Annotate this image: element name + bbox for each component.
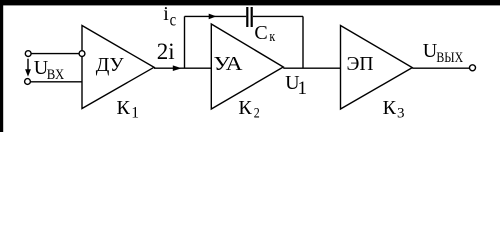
svg-text:К: К	[383, 97, 397, 119]
svg-text:к: к	[269, 29, 275, 45]
svg-text:К: К	[238, 97, 252, 119]
svg-text:1: 1	[131, 104, 139, 121]
svg-text:1: 1	[298, 78, 308, 99]
svg-text:3: 3	[397, 106, 405, 122]
svg-text:2: 2	[254, 105, 260, 121]
svg-text:ВЫХ: ВЫХ	[436, 50, 463, 66]
svg-text:К: К	[117, 97, 131, 119]
svg-text:2i: 2i	[157, 39, 175, 64]
svg-text:ЭП: ЭП	[347, 53, 374, 75]
svg-text:с: с	[170, 9, 177, 29]
svg-text:С: С	[254, 22, 267, 44]
svg-text:ДУ: ДУ	[96, 54, 125, 76]
svg-text:УА: УА	[214, 53, 244, 75]
svg-text:i: i	[163, 3, 169, 25]
svg-text:ВХ: ВХ	[47, 67, 65, 83]
